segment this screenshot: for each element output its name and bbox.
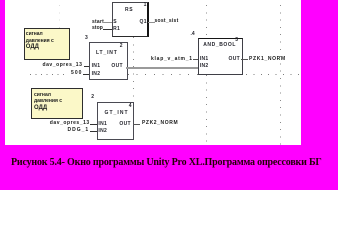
wire Q1 to sost_sist: [148, 22, 155, 23]
grid dotted row y74 mid: [128, 74, 198, 75]
comment box 2: сигнал давления с ОДД: [31, 88, 83, 119]
GT_INT title: [105, 111, 129, 116]
grid dotted row y74 right: [246, 74, 300, 75]
and gate block AND_BOOL: [198, 38, 243, 75]
label PZK2_NORM: [142, 121, 178, 126]
GT_INT pin IN1: [98, 122, 107, 127]
label start: [92, 20, 104, 25]
AND_BOOL title: [203, 43, 236, 48]
AND_BOOL pin IN2: [200, 64, 209, 69]
floating number .4: [191, 32, 195, 37]
op block RS U1: [112, 2, 150, 37]
label sost_sist: [155, 19, 179, 24]
label DDG_1: [68, 128, 90, 133]
grid dotted column x206 lower: [206, 75, 207, 144]
wire GT_INT OUT to PZK2_NORM: [133, 124, 140, 125]
wire klap_v_atm_1 to IN1: [193, 59, 198, 60]
LT_INT pin IN1: [92, 64, 101, 69]
wire LT_INT OUT to AND_BOOL IN2: [126, 67, 199, 68]
wire 500 to IN2: [83, 74, 90, 75]
AND_BOOL pin OUT: [229, 57, 240, 62]
GT_INT exec number 4: [129, 104, 132, 109]
grid dotted column x206 upper: [206, 5, 207, 38]
AND_BOOL exec number 3: [235, 38, 238, 43]
AND_BOOL pin IN1: [200, 57, 209, 62]
LT_INT pin OUT: [111, 64, 122, 69]
comparator block GT_INT: [97, 102, 134, 140]
grid dotted column x133: [133, 37, 134, 99]
label klap_v_atm_1: [151, 57, 193, 62]
RS exec number 1: [144, 3, 147, 8]
grid dotted column x59: [59, 5, 60, 29]
white editor page: [5, 0, 301, 145]
wire start to S: [104, 22, 112, 23]
label dav_opres_13 (upper): [43, 63, 83, 68]
LT_INT title: [96, 51, 118, 56]
label PZK1_NORM: [249, 57, 286, 62]
grid dotted row y74 left: [30, 74, 68, 75]
comparator block LT_INT: [89, 42, 128, 80]
GT_INT pin OUT: [119, 122, 130, 127]
floating number 3: [85, 36, 88, 41]
figure caption: [11, 157, 322, 168]
label 500: [71, 71, 83, 76]
wire DDG_1 to GT IN2: [90, 131, 97, 132]
wire AND_BOOL OUT to PZK1_NORM: [241, 59, 248, 60]
GT_INT pin IN2: [98, 129, 107, 134]
floating number 2: [91, 95, 94, 100]
LT_INT pin IN2: [92, 72, 101, 77]
wire dav_opres_13 to GT IN1: [90, 124, 97, 125]
RS title: [125, 8, 133, 13]
wire stop to R1: [103, 29, 112, 30]
comment box 1: сигнал давления с ОДД: [24, 28, 70, 60]
grid dotted column x280: [280, 5, 281, 145]
RS pin Q1: [140, 20, 147, 25]
label stop: [92, 26, 103, 31]
LT_INT exec number 2: [120, 44, 123, 49]
RS pin S: [113, 20, 117, 25]
RS pin R1: [113, 27, 120, 32]
wire dav_opres_13 to IN1: [84, 66, 90, 67]
label dav_opres_13 (lower): [50, 121, 90, 126]
